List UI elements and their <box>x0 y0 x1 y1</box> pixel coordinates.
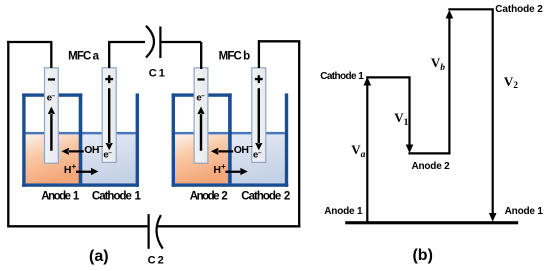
water line beaker 1 <box>26 132 136 135</box>
H+ right arrow beaker 1 <box>76 168 98 175</box>
beaker 2 left wall <box>172 93 175 186</box>
label Anode 1 right (b) <box>505 207 543 217</box>
membrane beaker 2 <box>228 93 232 183</box>
beaker 2 right wall <box>285 93 288 186</box>
OH- label beaker 1 <box>84 144 102 155</box>
OH- left arrow beaker 1 <box>62 148 84 155</box>
beaker 1 right wall <box>136 93 139 186</box>
label Anode 1 left (b) <box>324 207 362 217</box>
Vb up arrowhead <box>446 10 454 19</box>
anode 2 minus sign <box>198 78 205 80</box>
capacitor C1 straight plate <box>159 27 161 59</box>
V2 down arrowhead <box>489 213 497 222</box>
label V2 <box>504 75 518 90</box>
label Cathode 1 under beaker 1 <box>92 191 140 203</box>
top cathode 2 level line <box>448 8 494 10</box>
label Anode 2 under beaker 2 <box>190 191 226 203</box>
label (a) <box>89 249 109 265</box>
cathode 1 compartment liquid <box>79 135 136 184</box>
anode 1 chamber top edge <box>22 93 82 96</box>
anode 2 electrode rod <box>194 68 208 163</box>
label Va <box>351 143 365 158</box>
beaker 2 bottom wall <box>172 183 289 186</box>
label C 1 <box>149 69 165 80</box>
anode 1 compartment liquid <box>26 135 83 184</box>
label Anode 1 under beaker 1 <box>41 191 77 203</box>
Va vertical line <box>366 84 368 222</box>
water line beaker 2 <box>175 132 285 135</box>
anode 2 level line <box>408 152 450 154</box>
wire C1 to anode 2 <box>160 42 201 69</box>
cathode 2 electrode rod <box>252 68 266 163</box>
cathode 1 e- label <box>103 151 112 161</box>
wire cathode 2 to top <box>258 40 260 68</box>
V1 down arrowhead <box>406 145 414 154</box>
label C 2 <box>148 255 164 266</box>
membrane beaker 1 <box>79 93 83 183</box>
H+ right arrow beaker 2 <box>225 168 247 175</box>
OH- left arrow beaker 2 <box>211 148 233 155</box>
baseline panel b <box>345 221 518 224</box>
anode 1 e- label <box>47 94 56 104</box>
cathode 1 electron down-arrow <box>106 88 113 150</box>
cathode 2 electron down-arrow <box>255 88 262 150</box>
Va up arrowhead <box>364 77 372 86</box>
wire right vertical <box>298 41 300 227</box>
cathode 1 level line <box>366 76 410 78</box>
capacitor C1 curved plate <box>146 26 154 58</box>
cathode 2 plus sign <box>255 75 263 83</box>
label MFC a <box>68 51 98 63</box>
H+ label beaker 1 <box>64 165 76 176</box>
cathode 1 electrode rod <box>102 68 116 163</box>
anode 2 electron up-arrow <box>197 107 204 151</box>
Vb vertical line <box>448 16 450 153</box>
label Cathode 1 (b) <box>320 72 363 82</box>
anode 2 e- label <box>196 94 205 104</box>
anode 2 chamber top edge <box>172 93 232 96</box>
label MFC b <box>219 51 250 63</box>
wire top left horizontal <box>7 41 52 43</box>
wire cathode 1 to C1 <box>108 42 145 68</box>
label Cathode 2 (b) <box>495 5 542 15</box>
wire anode 1 to top <box>50 42 52 68</box>
beaker 1 left wall <box>22 93 25 186</box>
label V1 <box>394 111 408 126</box>
OH- label beaker 2 <box>234 144 252 155</box>
label Cathode 2 under beaker 2 <box>241 191 289 203</box>
H+ label beaker 2 <box>213 165 225 176</box>
V2 vertical line <box>492 9 494 214</box>
label Anode 2 (b) <box>411 162 449 172</box>
label (b) <box>412 248 432 264</box>
anode 1 electrode rod <box>45 68 59 163</box>
wire bottom left to C2 <box>7 225 147 227</box>
wire bottom C2 to right <box>157 225 301 227</box>
label Vb <box>431 56 445 71</box>
wire left vertical <box>7 41 9 226</box>
anode 1 minus sign <box>48 78 55 80</box>
cathode 1 plus sign <box>105 75 113 83</box>
anode 2 compartment liquid <box>175 135 232 184</box>
beaker 1 bottom wall <box>22 183 139 186</box>
V1 vertical line <box>408 77 410 146</box>
capacitor C2 curved plate <box>157 215 163 249</box>
cathode 2 compartment liquid <box>228 135 285 184</box>
cathode 2 e- label <box>253 151 262 161</box>
capacitor C2 straight plate <box>148 214 150 249</box>
anode 1 electron up-arrow <box>48 107 55 151</box>
wire top right horizontal <box>258 40 300 42</box>
